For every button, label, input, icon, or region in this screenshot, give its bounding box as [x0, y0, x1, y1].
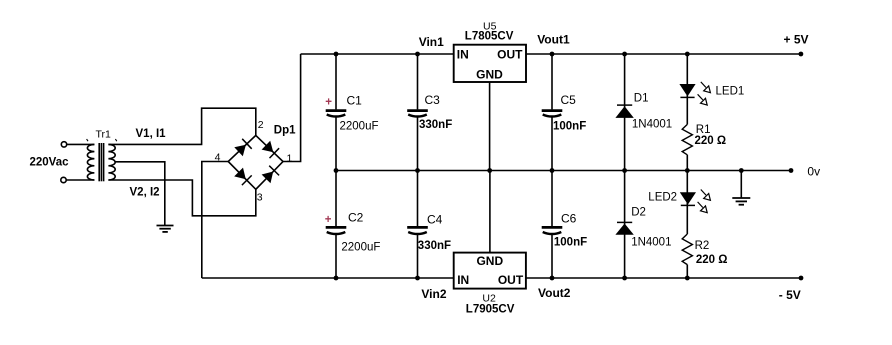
junction dot 6	[799, 52, 804, 57]
junction dot 14	[789, 168, 794, 173]
svg-text:1N4001: 1N4001	[632, 118, 672, 130]
svg-text:LED2: LED2	[648, 192, 677, 204]
junction dot 18	[622, 276, 627, 281]
junction dot 19	[685, 276, 690, 281]
svg-text:V1, I1: V1, I1	[136, 128, 167, 140]
svg-text:2200uF: 2200uF	[341, 241, 380, 253]
svg-text:220Vac: 220Vac	[30, 157, 70, 169]
op-amp/regulator U5 L7805CV box	[454, 45, 526, 82]
wire node 1 to top rail	[283, 54, 301, 162]
svg-text:220 Ω: 220 Ω	[695, 135, 727, 147]
svg-text:GND: GND	[476, 67, 503, 81]
svg-text:1: 1	[287, 152, 293, 164]
svg-text:+: +	[325, 214, 332, 226]
svg-text:330nF: 330nF	[418, 240, 451, 252]
svg-text:D2: D2	[631, 207, 646, 219]
wire primary top	[67, 143, 95, 145]
svg-text:Vin1: Vin1	[419, 35, 444, 49]
svg-text:Vin2: Vin2	[421, 287, 446, 301]
bridge diode D 4-2	[234, 139, 251, 157]
junction dot 9	[487, 168, 492, 173]
svg-text:L7905CV: L7905CV	[466, 303, 515, 315]
junction dot 2	[415, 52, 420, 57]
mid rail 0V	[336, 170, 791, 172]
junction dot 7	[334, 168, 339, 173]
svg-text:1N4001: 1N4001	[631, 236, 671, 248]
svg-text:2: 2	[258, 119, 264, 131]
svg-text:C6: C6	[561, 212, 577, 226]
svg-text:C5: C5	[561, 93, 577, 107]
junction dot 15	[334, 276, 339, 281]
junction dot 20	[799, 276, 804, 281]
svg-text:330nF: 330nF	[419, 119, 452, 131]
svg-text:C1: C1	[347, 94, 363, 108]
wire center tap	[115, 162, 165, 226]
svg-text:IN: IN	[457, 48, 469, 62]
bridge diode D 2-1	[262, 141, 280, 158]
junction dot 16	[415, 276, 420, 281]
capacitor C6	[542, 171, 587, 279]
resistor R2	[682, 234, 727, 278]
svg-text:OUT: OUT	[497, 48, 523, 62]
AC terminal bottom	[61, 177, 66, 182]
ground (center tap)	[157, 226, 174, 232]
bridge diode D 3-1	[262, 166, 280, 184]
svg-text:Vout1: Vout1	[537, 33, 570, 47]
junction dot 5	[685, 52, 690, 57]
AC terminal top	[61, 142, 66, 147]
resistor R1	[682, 124, 726, 171]
capacitor C5	[542, 54, 587, 171]
junction dot 4	[622, 52, 627, 57]
diode D1 1N4001	[615, 54, 672, 171]
top rail Vout1 segment	[526, 53, 801, 55]
svg-text:L7805CV: L7805CV	[465, 31, 514, 43]
bottom rail Vin2 segment	[202, 277, 454, 279]
capacitor C1	[325, 54, 378, 171]
svg-text:IN: IN	[457, 273, 469, 287]
transformer Tr1 primary winding	[87, 144, 94, 180]
regulator U2 L7905CV box	[454, 253, 526, 289]
junction dot 17	[550, 276, 555, 281]
svg-text:100nF: 100nF	[554, 236, 587, 248]
svg-text:C4: C4	[427, 212, 443, 226]
capacitor C3	[407, 54, 452, 171]
svg-text:R2: R2	[695, 240, 710, 252]
svg-text:V2, I2: V2, I2	[130, 187, 160, 199]
capacitor C4	[407, 171, 451, 279]
junction dot 3	[550, 52, 555, 57]
svg-text:2200uF: 2200uF	[340, 121, 379, 133]
top rail Vin1 segment	[301, 53, 454, 55]
wire node 4 to bottom rail	[202, 162, 228, 279]
LED1	[679, 54, 744, 124]
LED2	[648, 171, 710, 235]
svg-text:- 5V: - 5V	[779, 288, 801, 302]
junction dot 13	[739, 168, 744, 173]
junction dot 10	[550, 168, 555, 173]
svg-text:Vout2: Vout2	[538, 286, 571, 300]
svg-text:+: +	[325, 96, 332, 108]
transformer core	[99, 143, 103, 181]
wire V2 to bridge node 3	[108, 180, 255, 216]
polarity tick secondary	[115, 139, 116, 141]
svg-text:D1: D1	[634, 92, 649, 104]
svg-text:100nF: 100nF	[553, 120, 586, 132]
bottom rail Vout2 segment	[526, 277, 801, 279]
svg-text:OUT: OUT	[498, 273, 524, 287]
svg-text:C3: C3	[425, 93, 441, 107]
junction dot 11	[622, 168, 627, 173]
junction dot 12	[685, 168, 690, 173]
svg-text:3: 3	[257, 191, 263, 203]
svg-text:0v: 0v	[807, 165, 820, 179]
capacitor C2	[325, 171, 381, 279]
wire primary bottom	[66, 179, 94, 181]
svg-text:Tr1: Tr1	[96, 129, 112, 141]
svg-text:220 Ω: 220 Ω	[696, 254, 728, 266]
bridge diode D 4-3	[234, 168, 252, 186]
U2 GND pin wire	[489, 171, 491, 253]
svg-text:GND: GND	[476, 254, 503, 268]
diode D2 1N4001	[615, 171, 671, 279]
junction dot 8	[415, 168, 420, 173]
svg-text:LED1: LED1	[716, 85, 745, 97]
junction dot 1	[334, 52, 339, 57]
transformer secondary winding	[108, 144, 115, 180]
U5 GND pin wire	[489, 82, 491, 171]
bridge Dp1 diamond	[228, 135, 283, 189]
svg-text:+ 5V: + 5V	[784, 33, 809, 47]
ground (0V rail)	[732, 171, 750, 205]
svg-text:Dp1: Dp1	[274, 125, 296, 137]
svg-text:C2: C2	[348, 211, 364, 225]
wire V1 to bridge node 2	[108, 108, 255, 144]
polarity tick primary	[87, 139, 88, 141]
